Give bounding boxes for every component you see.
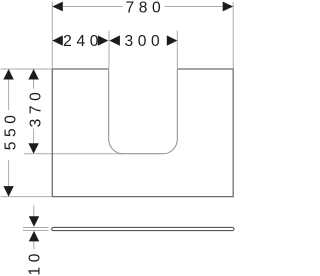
svg-text:240: 240 <box>63 33 103 50</box>
svg-text:370: 370 <box>28 88 45 128</box>
svg-text:300: 300 <box>124 33 164 50</box>
svg-text:10: 10 <box>27 249 44 276</box>
svg-text:780: 780 <box>125 0 165 17</box>
svg-text:550: 550 <box>3 110 20 150</box>
